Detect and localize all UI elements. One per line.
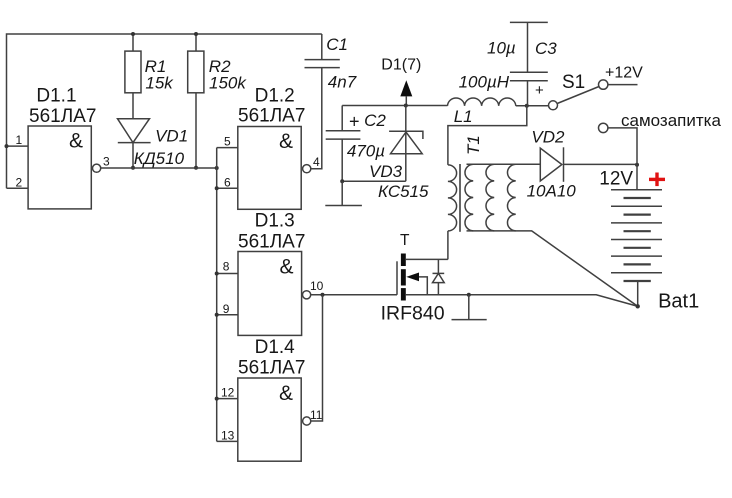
zener diode VD3 bbox=[389, 106, 423, 182]
svg-text:12: 12 bbox=[221, 386, 235, 400]
svg-text:15k: 15k bbox=[145, 73, 174, 92]
gate U D1.1 box bbox=[28, 126, 91, 209]
svg-text:5: 5 bbox=[224, 135, 231, 149]
svg-text:T: T bbox=[400, 232, 410, 249]
junction dot battery plus node bbox=[635, 163, 639, 167]
svg-text:6: 6 bbox=[224, 175, 231, 189]
svg-text:C2: C2 bbox=[364, 111, 386, 130]
svg-text:100µH: 100µH bbox=[459, 72, 510, 91]
svg-text:+: + bbox=[535, 82, 544, 99]
wire source row and diagonal to battery minus bbox=[406, 295, 638, 307]
svg-text:&: & bbox=[69, 129, 83, 152]
wire pin1 stub bbox=[7, 145, 29, 147]
wire самозапитка to battery node bbox=[608, 128, 637, 165]
junction dot R2 bottom bbox=[194, 166, 198, 170]
wire L1 to S1 junction bbox=[516, 105, 549, 107]
wire node C2-VD3 bottom bbox=[342, 180, 406, 182]
svg-text:+12V: +12V bbox=[605, 65, 643, 82]
svg-text:8: 8 bbox=[223, 260, 230, 274]
svg-text:C1: C1 bbox=[326, 35, 348, 54]
svg-text:&: & bbox=[280, 256, 294, 279]
gate D1.2 output bubble pin4 bbox=[303, 165, 311, 173]
capacitor C2 bbox=[326, 106, 361, 182]
capacitor C1 bbox=[305, 34, 340, 169]
wire drain row bbox=[406, 258, 448, 260]
junction dot L1-C3-S1 bbox=[525, 104, 529, 108]
diode VD1 bbox=[118, 119, 151, 170]
wire R2 top bbox=[195, 34, 197, 51]
svg-text:D1.1: D1.1 bbox=[36, 86, 76, 107]
wire +12V stub bbox=[608, 84, 638, 86]
wire pin6 stub bbox=[217, 187, 238, 189]
ground at C2 bbox=[325, 181, 362, 205]
junction dot pin9 bbox=[215, 313, 219, 317]
switch S1 pole circle bbox=[549, 101, 558, 110]
svg-text:4n7: 4n7 bbox=[328, 73, 357, 92]
junction dot rail-row bbox=[215, 166, 219, 170]
junction dot pin8 bbox=[215, 272, 219, 276]
gate D1.3 output bubble pin10 bbox=[303, 291, 311, 299]
svg-text:2: 2 bbox=[16, 175, 23, 189]
transformer T1 secondary winding b bbox=[486, 164, 494, 231]
gate U D1.2 box bbox=[238, 127, 301, 210]
battery Bat1 cells bbox=[611, 190, 662, 281]
svg-text:561ЛА7: 561ЛА7 bbox=[29, 106, 96, 127]
wire L1 row from C2 corner bbox=[342, 105, 447, 107]
transformer T1 core bbox=[459, 164, 461, 232]
svg-text:L1: L1 bbox=[454, 107, 473, 126]
wire secondary bottom rail and diagonal to battery minus bbox=[467, 231, 638, 306]
junction dot R1 top rail bbox=[131, 32, 135, 36]
svg-text:КД510: КД510 bbox=[134, 149, 185, 168]
svg-text:11: 11 bbox=[310, 408, 323, 422]
switch S1 arm bbox=[557, 87, 599, 104]
svg-text:VD3: VD3 bbox=[369, 162, 403, 181]
resistor R2 bbox=[188, 51, 204, 93]
svg-text:D1.3: D1.3 bbox=[255, 211, 295, 232]
transistor Q T IRF840 bbox=[397, 254, 427, 301]
svg-text:&: & bbox=[279, 130, 293, 153]
svg-text:&: & bbox=[279, 382, 293, 405]
battery Bat1 top wire bbox=[636, 165, 638, 190]
junction dot at left rail pin1 bbox=[5, 144, 9, 148]
terminal самозапитка circle bbox=[599, 123, 608, 132]
svg-text:VD2: VD2 bbox=[531, 128, 565, 147]
wire R2 bottom bbox=[195, 93, 197, 168]
transformer T1 primary winding bbox=[448, 165, 457, 231]
wire primary bottom to drain bbox=[447, 231, 449, 260]
svg-text:12V: 12V bbox=[599, 169, 633, 190]
svg-text:C3: C3 bbox=[535, 39, 557, 58]
junction dot output merge bbox=[321, 293, 325, 297]
wire input bus rail bbox=[216, 148, 218, 442]
wire pin10 row to gate of T bbox=[311, 294, 397, 296]
svg-text:1: 1 bbox=[16, 133, 23, 147]
wire secondary top rail to VD2 anode bbox=[467, 163, 541, 165]
svg-text:10: 10 bbox=[310, 279, 324, 293]
wire pin2 stub bbox=[7, 187, 29, 189]
wire pin12 stub bbox=[217, 398, 238, 400]
svg-text:561ЛА7: 561ЛА7 bbox=[238, 232, 305, 253]
svg-text:9: 9 bbox=[223, 302, 230, 316]
label battery plus red bbox=[649, 173, 665, 187]
svg-text:Bat1: Bat1 bbox=[658, 291, 699, 313]
svg-text:D1(7): D1(7) bbox=[381, 57, 421, 74]
svg-text:3: 3 bbox=[103, 155, 110, 169]
svg-text:КС515: КС515 bbox=[378, 182, 429, 201]
svg-text:10µ: 10µ bbox=[487, 39, 516, 58]
gate D1.4 output bubble pin11 bbox=[303, 417, 311, 425]
svg-text:13: 13 bbox=[221, 428, 235, 442]
wire top rail and left rail bbox=[7, 34, 322, 188]
svg-text:4: 4 bbox=[313, 155, 320, 169]
junction dot source-ground bbox=[467, 293, 471, 297]
svg-text:IRF840: IRF840 bbox=[381, 303, 445, 325]
wire pin9 stub bbox=[217, 314, 238, 316]
gate D1.1 output bubble pin3 bbox=[93, 164, 101, 172]
transformer T1 secondary winding c bbox=[507, 164, 515, 231]
svg-text:самозапитка: самозапитка bbox=[621, 111, 721, 130]
ground at source bbox=[452, 295, 487, 320]
resistor R1 bbox=[125, 51, 141, 93]
svg-text:561ЛА7: 561ЛА7 bbox=[238, 106, 305, 127]
junction dot pin12 bbox=[215, 397, 219, 401]
svg-text:D1.4: D1.4 bbox=[255, 337, 296, 358]
wire R1 bottom to VD1 bbox=[132, 93, 134, 119]
diode body diode of T bbox=[433, 259, 445, 294]
junction dot R2 top rail bbox=[194, 32, 198, 36]
power arrow D1(7) supply pin bbox=[400, 80, 412, 107]
inductor L1 bbox=[448, 98, 516, 106]
diode VD2 bbox=[540, 147, 563, 182]
terminal +12V circle bbox=[599, 80, 608, 89]
wire VD2 cathode to battery node bbox=[564, 163, 638, 165]
wire pin11 up to pin10 row bbox=[311, 295, 323, 421]
svg-text:S1: S1 bbox=[562, 72, 585, 93]
wire R1 top bbox=[132, 34, 134, 51]
svg-text:470µ: 470µ bbox=[347, 142, 385, 161]
svg-text:10A10: 10A10 bbox=[527, 181, 577, 200]
wire S1 junction down to transformer primary bbox=[448, 106, 527, 165]
junction dot pin6 bbox=[215, 186, 219, 190]
battery Bat1 bottom stub bbox=[637, 281, 639, 306]
wire pin13 stub bbox=[217, 440, 238, 442]
svg-text:561ЛА7: 561ЛА7 bbox=[238, 358, 305, 379]
svg-text:150k: 150k bbox=[209, 73, 247, 92]
svg-text:+: + bbox=[349, 112, 360, 132]
wire node pin3 output row bbox=[101, 167, 217, 169]
svg-text:VD1: VD1 bbox=[155, 127, 188, 146]
gate U D1.4 box bbox=[238, 378, 301, 461]
transformer T1 secondary winding a bbox=[465, 164, 473, 231]
gate U D1.3 box bbox=[238, 252, 302, 336]
wire pin5 stub bbox=[217, 147, 238, 149]
wire pin8 stub bbox=[217, 273, 238, 275]
svg-text:D1.2: D1.2 bbox=[255, 86, 295, 107]
junction dot C2 bottom bbox=[340, 179, 344, 183]
junction dot battery minus apex bbox=[636, 304, 640, 308]
svg-text:T1: T1 bbox=[464, 135, 483, 155]
capacitor C3 bbox=[510, 22, 548, 105]
